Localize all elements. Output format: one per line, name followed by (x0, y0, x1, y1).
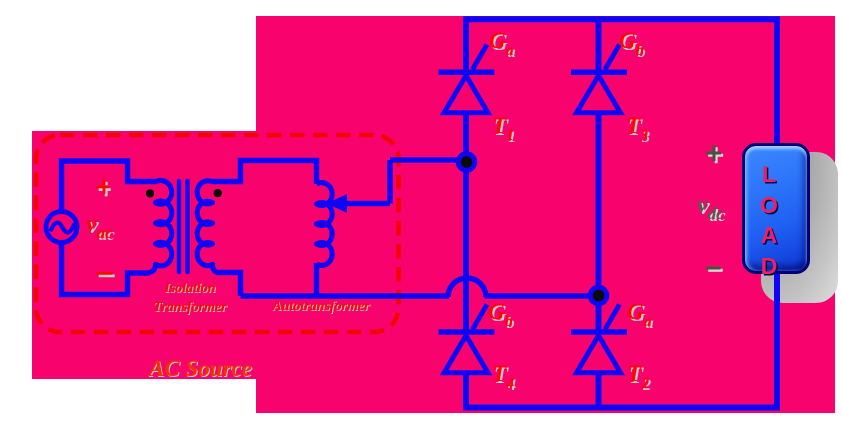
autotransformer winding (317, 183, 333, 266)
bridge outer rails (top, right, bottom) (463, 19, 777, 407)
minus sign at load (708, 269, 723, 272)
wire: secondary bottom lead (216, 273, 241, 297)
label Gb of T4 (488, 299, 513, 331)
wire: source loop left/top (62, 161, 157, 212)
thyristor T4 column lower (463, 372, 469, 408)
dashed AC-source boundary box (36, 135, 399, 332)
plus sign at source (99, 182, 111, 197)
label T2 (627, 361, 649, 393)
plus sign at load (708, 147, 723, 163)
node B junction dot (588, 285, 610, 307)
wire hop over b-net (448, 278, 486, 297)
transformer primary winding (150, 181, 172, 273)
label Autotransformer (251, 299, 391, 315)
label Gb of T3 (619, 28, 644, 60)
label T4 (492, 361, 514, 393)
node A junction dot (456, 151, 478, 173)
thyristor T2 (571, 329, 627, 335)
LOAD block (742, 143, 810, 274)
LOAD text (735, 159, 803, 282)
thyristor T1 column upper (463, 19, 469, 72)
background panel main (256, 16, 835, 413)
load drop shadow (761, 152, 838, 303)
label Isolation Transformer (120, 280, 260, 317)
thyristor T3 (571, 69, 627, 75)
tap arrow shaft into autotransformer (344, 160, 466, 204)
label Ga of T2 (627, 299, 652, 331)
thyristor T1 (439, 69, 495, 75)
label vac (86, 211, 113, 243)
AC source V1 (46, 212, 77, 243)
background panel AC source (32, 131, 256, 379)
wire: source loop bottom (62, 243, 151, 295)
label T1 (492, 113, 514, 145)
transformer secondary winding (197, 181, 217, 273)
tap arrow head (327, 194, 348, 213)
thyristor T4 (439, 329, 495, 335)
label vdc (697, 192, 724, 224)
minus sign at source (99, 274, 115, 277)
label Ga of T1 (489, 28, 514, 60)
wire: secondary to autotransformer (top) (212, 161, 317, 185)
label AC Source (149, 356, 252, 382)
primary phase dot (146, 189, 154, 197)
label T3 (626, 113, 648, 145)
wire: autotransformer bottom stub (314, 263, 320, 296)
transformer core (179, 181, 188, 272)
wire: b-net horizontal to node B (241, 293, 599, 299)
secondary phase dot (214, 189, 222, 197)
thyristor T3/T2 column (596, 19, 602, 72)
